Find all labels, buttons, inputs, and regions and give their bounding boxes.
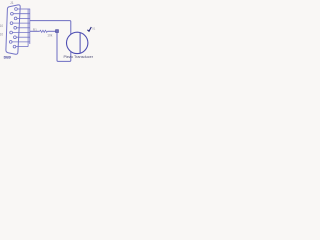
wire pin4 stub [16,36,30,38]
wire pin5 stub [16,46,28,48]
resistor R1 zigzag [40,30,48,32]
svg-text:Piezo Transducer: Piezo Transducer [64,55,94,59]
wire pin8 stub [12,32,29,34]
pin 1 [15,8,18,11]
wire rail to resistor [30,30,40,32]
svg-text:10k: 10k [47,33,53,37]
wire resistor to junction [47,30,55,32]
wire pin1 stub [17,8,29,10]
svg-text:10: 10 [0,32,3,36]
svg-text:10: 10 [0,24,3,28]
pin 4 [14,36,17,39]
connector J1 body (DB9) [6,5,20,54]
wire pin3 stub [17,27,30,29]
wire bus vertical A [27,9,29,47]
wire pin9 stub [12,41,30,43]
pin 8 [10,31,13,34]
wire pin2 stub [17,17,30,19]
pin 6 [11,12,14,15]
piezo element line [79,33,81,53]
pin 5 [13,45,16,48]
wire pin6 stub [13,13,30,15]
pin 3 [14,26,17,29]
wire bus vertical B [29,9,31,44]
svg-text:R1: R1 [33,28,37,32]
background [0,0,100,66]
pin 7 [10,22,13,25]
wire pin7 stub [13,22,30,24]
svg-text:J1: J1 [10,1,14,5]
wire junction down and to transducer bottom [57,33,71,62]
pin 2 [14,17,17,20]
polarity check mark [87,27,91,31]
pin 9 [9,41,12,44]
junction square node [56,30,59,33]
svg-text:DB9: DB9 [4,55,11,59]
transducer LS1 circle [67,32,88,53]
svg-text:01: 01 [92,27,96,31]
wire top rail to transducer top [30,21,71,35]
